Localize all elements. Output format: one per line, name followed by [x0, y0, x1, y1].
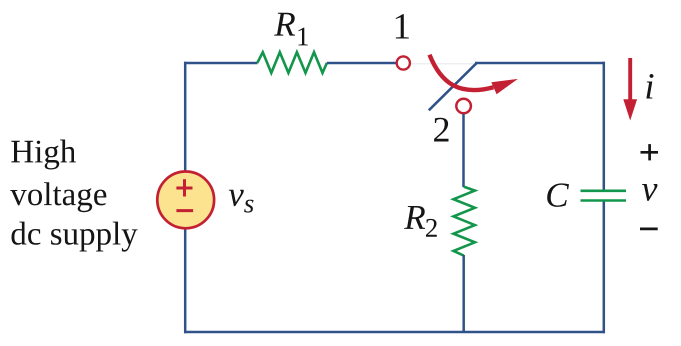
- node 1 terminal circle: [397, 56, 410, 69]
- capacitor C plates: [581, 191, 627, 201]
- resistor R1: [257, 52, 327, 73]
- wire bottom rail: [184, 331, 605, 334]
- label vs: [229, 190, 254, 213]
- label plus above v: [641, 144, 659, 160]
- wire from R1 to switch terminal 1: [327, 62, 396, 65]
- wire top left segment: [184, 62, 258, 65]
- label R2: [404, 206, 437, 237]
- caption high voltage dc supply: [10, 140, 137, 252]
- wire left vertical rail: [184, 62, 187, 333]
- faint open-path line: [411, 63, 474, 65]
- wire top right segment: [475, 62, 605, 65]
- label i: [646, 74, 653, 99]
- label C: [547, 183, 569, 207]
- switch action arc arrow: [430, 55, 518, 94]
- wire from node 2 down to R2: [462, 114, 465, 187]
- wire right vertical rail upper: [603, 62, 606, 190]
- voltage source vs circle: [157, 172, 214, 229]
- current arrow i: [623, 58, 637, 121]
- label v: [642, 184, 658, 201]
- node 2 terminal circle: [456, 99, 471, 114]
- wire from R2 to bottom rail: [462, 255, 465, 333]
- voltage source plus sign: [176, 179, 192, 196]
- voltage source minus sign: [176, 209, 193, 212]
- label node 2: [434, 118, 448, 142]
- resistor R2: [454, 187, 475, 256]
- label node 1: [396, 14, 409, 38]
- wire right vertical rail lower: [603, 201, 606, 333]
- switch blade: [429, 63, 477, 110]
- label R1: [274, 13, 308, 46]
- label minus below v: [640, 228, 658, 231]
